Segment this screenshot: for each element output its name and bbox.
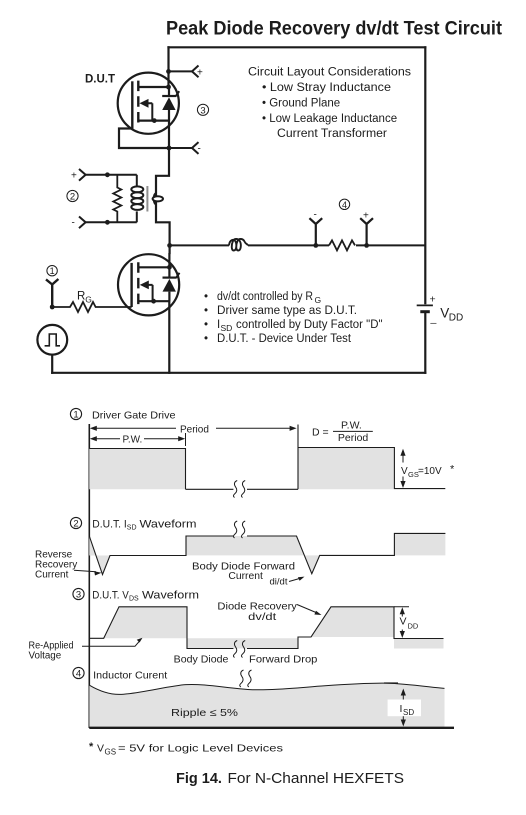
svg-text:di/dt: di/dt xyxy=(270,577,288,588)
junction probe plus xyxy=(364,243,369,248)
pulse generator V1 xyxy=(37,325,67,355)
svg-text:dv/dt: dv/dt xyxy=(248,611,276,623)
svg-text:V: V xyxy=(401,466,408,477)
waveform 1 pulse 2 xyxy=(298,448,394,490)
junction source tap xyxy=(167,146,172,151)
dimension P.W. xyxy=(92,438,183,440)
junction section2 bottom xyxy=(105,220,110,225)
node circled 2 wave xyxy=(70,517,81,528)
junction Q2 source node xyxy=(151,299,156,304)
transistor Q1 D.U.T. MOSFET xyxy=(118,73,179,134)
junction gate drive node xyxy=(50,305,55,310)
svg-text:P.W.: P.W. xyxy=(123,435,143,446)
svg-text:-: - xyxy=(198,144,201,155)
waveform 2 fills xyxy=(89,536,110,575)
resistor R3 xyxy=(329,240,355,250)
wire DUT drain + tap xyxy=(169,66,199,78)
svg-text:2: 2 xyxy=(70,192,75,203)
Q1 source bar xyxy=(138,119,169,121)
svg-text:Period: Period xyxy=(338,432,369,444)
svg-text:1: 1 xyxy=(50,266,55,276)
svg-text:3: 3 xyxy=(200,105,205,116)
svg-text:Inductor Curent: Inductor Curent xyxy=(93,670,167,682)
svg-text:D.U.T. - Device Under Test: D.U.T. - Device Under Test xyxy=(217,333,352,345)
wire wave4 baseline xyxy=(89,727,454,729)
wire right edge lower xyxy=(424,313,426,373)
resistor R2 (transformer shunt) xyxy=(113,175,121,223)
Q2 body connection xyxy=(148,285,152,301)
wire low segment xyxy=(186,488,299,490)
wave4 crest dash xyxy=(384,682,398,684)
wire pulse gen to bottom rail xyxy=(51,355,53,373)
node circled 1 wave xyxy=(70,408,81,419)
break 3 xyxy=(233,641,245,658)
transistor Q2 driver MOSFET xyxy=(118,253,179,315)
svg-text:R: R xyxy=(77,291,85,303)
svg-text:Ripple ≤ 5%: Ripple ≤ 5% xyxy=(171,707,238,719)
svg-text:D.U.T. I: D.U.T. I xyxy=(92,519,127,531)
wire section2 - lead xyxy=(86,221,137,223)
Q2 body circle xyxy=(118,254,179,315)
svg-text:dv/dt controlled by R: dv/dt controlled by R xyxy=(217,291,313,303)
wire DUT source rail xyxy=(156,121,170,253)
Q1 body-diode cathode tick xyxy=(176,91,179,96)
terminal section2 - input xyxy=(79,217,137,229)
svg-text:G: G xyxy=(85,295,92,305)
Q2 body-diode triangle xyxy=(163,279,176,292)
node circled 3 xyxy=(197,104,208,115)
svg-text:+: + xyxy=(197,68,203,79)
svg-text:Waveform: Waveform xyxy=(142,590,199,602)
Q2 drain bar xyxy=(138,266,169,268)
svg-text:Voltage: Voltage xyxy=(29,651,62,662)
svg-text:•: • xyxy=(204,291,208,303)
svg-text:Body Diode: Body Diode xyxy=(174,654,229,666)
svg-text:4: 4 xyxy=(76,669,81,680)
wire DUT gate-source loop xyxy=(119,129,169,149)
svg-text:= 5V for Logic Level Devices: = 5V for Logic Level Devices xyxy=(118,743,283,755)
svg-text:-: - xyxy=(314,210,317,221)
svg-text:I: I xyxy=(400,703,403,715)
junction Q2 drain node xyxy=(167,265,172,270)
transformer T1 secondary loop xyxy=(153,193,163,205)
dimension VGS xyxy=(402,453,404,484)
svg-text:*: * xyxy=(450,464,455,476)
junction drain tap xyxy=(166,69,171,74)
transformer T1 core xyxy=(146,186,148,212)
svg-text:Current: Current xyxy=(228,570,263,582)
inductor L1 xyxy=(229,239,248,251)
svg-text:+: + xyxy=(71,171,77,182)
wire top rail xyxy=(169,46,426,48)
Q2 body-diode cathode tick xyxy=(176,273,179,278)
svg-text:Current: Current xyxy=(35,570,69,581)
svg-text:D.U.T. V: D.U.T. V xyxy=(92,590,129,602)
waveform 2 trace xyxy=(89,533,445,574)
terminal probe minus xyxy=(309,218,322,245)
svg-text:1: 1 xyxy=(73,410,78,421)
svg-text:Driver Gate Drive: Driver Gate Drive xyxy=(92,410,176,422)
terminal probe plus xyxy=(360,218,373,245)
svg-text:_: _ xyxy=(430,313,437,325)
svg-text:DS: DS xyxy=(129,596,139,603)
waveform 4 trace xyxy=(89,683,444,694)
wire DUT drain rail xyxy=(167,47,169,87)
Q1 drain bar xyxy=(138,86,168,88)
svg-text:D =: D = xyxy=(312,426,329,438)
svg-text:3: 3 xyxy=(76,590,81,601)
node circled 2 xyxy=(67,190,78,201)
svg-text:• Low Leakage Inductance: • Low Leakage Inductance xyxy=(262,113,397,125)
svg-text:2: 2 xyxy=(73,519,78,530)
wire middle rail xyxy=(170,244,426,246)
Q2 source bar xyxy=(138,300,169,302)
svg-text:•: • xyxy=(204,333,208,345)
svg-text:SD: SD xyxy=(127,525,137,532)
Q1 channel (dashed) xyxy=(137,81,139,124)
Q1 body arrow xyxy=(140,99,149,108)
Q1 body circle xyxy=(118,73,179,134)
svg-text:GS: GS xyxy=(105,748,117,757)
junction middle rail / drain rail xyxy=(167,243,172,248)
junction Q1 source node xyxy=(152,118,157,123)
node circled 4 xyxy=(339,199,349,209)
svg-text:•: • xyxy=(204,305,208,317)
waveform 4 fill xyxy=(89,683,444,727)
wire bottom rail xyxy=(52,372,425,374)
Q2 body arrow xyxy=(140,281,149,290)
svg-text:Waveform: Waveform xyxy=(140,519,197,531)
svg-text:=10V: =10V xyxy=(418,466,442,477)
transformer T1 primary xyxy=(131,175,143,223)
terminal - connector xyxy=(192,142,199,154)
svg-text:Period: Period xyxy=(180,424,209,435)
dimension period xyxy=(92,428,295,446)
svg-text:+: + xyxy=(430,293,436,305)
terminal section2 + input xyxy=(79,169,137,181)
break 4 xyxy=(240,670,252,687)
svg-text:+: + xyxy=(363,211,369,222)
waveform 3 trace xyxy=(89,607,443,649)
svg-text:Current Transformer: Current Transformer xyxy=(277,128,387,140)
junction section2 top xyxy=(105,172,110,177)
wire right edge upper xyxy=(424,47,426,303)
svg-text:SD: SD xyxy=(221,323,233,333)
svg-text:V: V xyxy=(400,616,407,628)
Q1 gate bar xyxy=(131,81,133,128)
svg-text:-: - xyxy=(72,218,75,229)
svg-text:4: 4 xyxy=(342,200,347,210)
Q2 body-diode cathode bar xyxy=(163,277,177,279)
Q2 gate bar xyxy=(130,263,132,307)
svg-text:P.W.: P.W. xyxy=(341,419,362,431)
battery VDD positive plate xyxy=(417,304,433,306)
svg-text:• Ground Plane: • Ground Plane xyxy=(262,98,340,110)
svg-text:DD: DD xyxy=(408,622,419,631)
dimension VDD wave xyxy=(394,607,409,634)
Q1 body connection xyxy=(148,103,152,120)
svg-text:D.U.T: D.U.T xyxy=(85,74,115,86)
break 1 xyxy=(233,481,245,498)
Q2 body-diode lead xyxy=(168,253,170,301)
node circled 3 wave xyxy=(73,588,84,599)
waveform 1 pulse 1 xyxy=(89,449,185,490)
terminal probe 1 xyxy=(46,279,58,307)
svg-text:• Low Stray Inductance: • Low Stray Inductance xyxy=(262,82,391,94)
svg-text:controlled by Duty Factor "D": controlled by Duty Factor "D" xyxy=(236,319,383,331)
terminal + connector xyxy=(192,66,199,78)
svg-text:Driver same type as D.U.T.: Driver same type as D.U.T. xyxy=(217,305,357,317)
svg-text:*: * xyxy=(89,741,94,753)
svg-text:For N-Channel HEXFETS: For N-Channel HEXFETS xyxy=(228,771,405,787)
wire DUT source - tap xyxy=(169,142,199,154)
junction probe minus xyxy=(313,243,318,248)
resistor RG xyxy=(52,302,131,312)
junction Q1 drain node xyxy=(166,85,171,90)
axis xyxy=(88,424,90,728)
node circled 4 wave xyxy=(73,667,84,678)
svg-text:G: G xyxy=(315,295,322,305)
svg-text:SD: SD xyxy=(403,708,414,717)
svg-text:Fig 14.: Fig 14. xyxy=(176,771,222,787)
svg-text:Circuit Layout Considerations: Circuit Layout Considerations xyxy=(248,67,411,79)
svg-text:V: V xyxy=(97,743,104,755)
Q1 body-diode lead xyxy=(168,87,170,121)
wire driver source to bottom xyxy=(168,301,170,373)
svg-text:Forward Drop: Forward Drop xyxy=(249,654,318,666)
svg-text:Peak Diode Recovery dv/dt Test: Peak Diode Recovery dv/dt Test Circuit xyxy=(166,18,502,40)
Q1 body-diode triangle xyxy=(162,97,175,110)
node circled 1 xyxy=(47,266,57,276)
Q1 body-diode cathode bar xyxy=(162,95,176,97)
dimension ISD xyxy=(402,693,404,724)
break 2 xyxy=(233,521,245,538)
Q2 channel (dashed) xyxy=(137,262,139,305)
battery VDD negative plate xyxy=(420,310,430,313)
svg-text:•: • xyxy=(204,319,208,331)
waveform 3 fills xyxy=(104,607,187,639)
wire section2 + lead xyxy=(86,174,137,176)
svg-text:DD: DD xyxy=(449,313,463,324)
